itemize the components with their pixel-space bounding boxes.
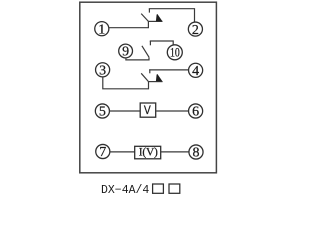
wire terminal 5 to element V: [109, 110, 140, 112]
relay case outline: [80, 2, 217, 173]
contact K1 arrow head: [156, 14, 163, 21]
terminal 2: [188, 22, 202, 38]
wire element I(V) to terminal 8: [161, 151, 189, 153]
contact K2 moving blade: [142, 46, 149, 57]
contact K1 moving blade: [141, 14, 148, 22]
svg-text:7: 7: [99, 145, 106, 160]
svg-text:3: 3: [99, 64, 106, 79]
terminal 9: [119, 44, 133, 60]
terminal 8: [189, 145, 203, 161]
wire contact K3 to terminal 4: [149, 69, 188, 71]
element V coil box: [140, 103, 156, 117]
terminal 6: [189, 104, 203, 120]
svg-text:6: 6: [192, 105, 199, 120]
svg-text:2: 2: [192, 23, 199, 38]
wire terminal 7 to element I(V): [110, 151, 135, 153]
wire contact K1 to terminal 2: [149, 9, 195, 22]
contact K3 arrow tail: [149, 81, 163, 83]
wire terminal 1 to contact K1: [109, 21, 149, 27]
wire terminal 9 to contact K2: [126, 57, 149, 60]
contact K3 fixed stub: [149, 69, 151, 73]
terminal 5: [95, 104, 109, 120]
contact K1 arrow tail: [148, 20, 162, 22]
element I(V) coil box: [135, 146, 161, 159]
type label DX-4A/4: [101, 184, 180, 197]
wire terminal 3 to contact K3: [103, 77, 149, 89]
svg-text:I(V): I(V): [139, 147, 158, 159]
contact K2 fixed stub: [149, 41, 151, 45]
terminal 3: [96, 63, 110, 79]
wire element V to terminal 6: [156, 110, 189, 112]
svg-text:10: 10: [170, 45, 180, 60]
svg-text:V: V: [144, 103, 151, 117]
svg-text:1: 1: [98, 22, 105, 37]
contact K3 moving blade: [141, 73, 148, 81]
terminal 7: [96, 144, 110, 160]
svg-text:8: 8: [193, 146, 200, 161]
terminal 1: [95, 22, 109, 38]
contact K3 arrow head: [156, 74, 163, 81]
svg-text:DX−4A/4: DX−4A/4: [101, 184, 149, 197]
svg-text:4: 4: [192, 64, 199, 79]
contact K1 fixed stub: [148, 9, 150, 13]
wire contact K2 to terminal 10: [150, 41, 173, 45]
svg-text:5: 5: [99, 105, 106, 120]
terminal 10: [167, 45, 182, 60]
svg-text:9: 9: [122, 45, 129, 60]
terminal 4: [189, 63, 203, 79]
